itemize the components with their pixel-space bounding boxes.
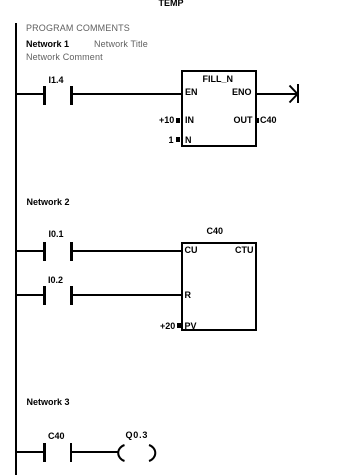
pin PV value +20 xyxy=(160,322,175,331)
contact I0.1 xyxy=(43,242,46,261)
pin stub IN xyxy=(176,118,180,123)
wire contact C40 to coil xyxy=(72,451,118,453)
pin R xyxy=(185,291,192,300)
contact C40 xyxy=(43,443,46,462)
wire rail to contact I1.4 xyxy=(15,93,43,95)
contact I1.4 xyxy=(43,86,46,105)
pin OUT xyxy=(234,116,253,125)
pin ENO xyxy=(232,88,252,97)
power rail (left) xyxy=(15,23,17,475)
pin N value 1 xyxy=(169,136,174,145)
wire rail to contact I0.2 xyxy=(15,294,43,296)
coil Q0.3 xyxy=(126,431,149,440)
node Network Title xyxy=(94,40,148,49)
node Network Comment xyxy=(26,53,103,62)
pin EN xyxy=(185,88,198,97)
rung continuation arrow xyxy=(297,84,299,103)
pin PV xyxy=(185,322,197,331)
pin IN xyxy=(185,116,194,125)
wire contact I0.2 to counter R xyxy=(72,294,181,296)
node Network 3 xyxy=(27,398,70,407)
pin N xyxy=(185,136,192,145)
pin CU xyxy=(185,246,198,255)
box U1 FILL_N xyxy=(181,70,257,147)
pin IN value +10 xyxy=(159,116,174,125)
wire contact I1.4 to box FILL_N xyxy=(72,93,181,95)
pin OUT value C40 xyxy=(260,116,277,125)
pin CTU xyxy=(235,246,254,255)
pin stub OUT xyxy=(255,118,260,123)
node PROGRAM COMMENTS xyxy=(26,24,130,33)
counter C40 CTU box xyxy=(207,227,224,236)
wire rail to contact I0.1 xyxy=(15,250,43,252)
wire contact I0.1 to counter CU xyxy=(72,250,181,252)
pin stub N xyxy=(176,137,180,142)
wire rail to contact C40 xyxy=(15,451,43,453)
contact I0.2 xyxy=(43,286,46,305)
node Network 1 xyxy=(26,40,69,49)
node Network 2 xyxy=(27,198,70,207)
node TEMP (declaration table header, clipped at top) xyxy=(159,0,184,8)
pin stub PV xyxy=(177,323,182,328)
wire ENO to arrow xyxy=(255,93,298,95)
